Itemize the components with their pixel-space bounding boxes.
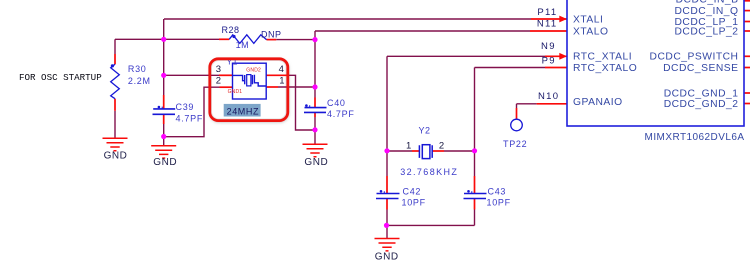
svg-text:TP22: TP22 [503, 139, 527, 149]
svg-text:3: 3 [216, 64, 221, 75]
svg-text:FOR OSC STARTUP: FOR OSC STARTUP [19, 72, 102, 83]
svg-text:32.768KHZ: 32.768KHZ [400, 167, 458, 177]
svg-text:N10: N10 [538, 91, 559, 102]
svg-text:P9: P9 [542, 55, 556, 66]
svg-text:C39: C39 [176, 102, 195, 112]
svg-text:R30: R30 [128, 64, 147, 74]
svg-text:XTALO: XTALO [573, 26, 609, 37]
svg-text:4: 4 [279, 64, 284, 75]
svg-text:Y2: Y2 [419, 126, 431, 136]
svg-text:C43: C43 [488, 187, 507, 197]
svg-text:N11: N11 [537, 18, 558, 29]
svg-text:GPANAIO: GPANAIO [573, 97, 623, 108]
svg-text:DCDC_PSWITCH: DCDC_PSWITCH [650, 52, 739, 63]
svg-text:2: 2 [439, 141, 444, 152]
svg-text:DCDC_LP_2: DCDC_LP_2 [674, 26, 738, 37]
svg-text:1: 1 [279, 75, 284, 86]
svg-text:DCDC_SENSE: DCDC_SENSE [663, 63, 738, 74]
svg-text:DCDC_IN_B: DCDC_IN_B [676, 0, 739, 6]
svg-text:MIMXRT1062DVL6A: MIMXRT1062DVL6A [645, 132, 745, 143]
svg-text:GND: GND [375, 251, 399, 262]
svg-text:GND: GND [104, 151, 128, 162]
svg-text:DCDC_GND_2: DCDC_GND_2 [664, 99, 739, 110]
svg-text:1M: 1M [236, 40, 250, 50]
svg-text:RTC_XTALO: RTC_XTALO [573, 63, 637, 74]
svg-text:10PF: 10PF [402, 197, 426, 207]
svg-text:2: 2 [216, 75, 221, 86]
svg-text:1: 1 [406, 141, 411, 152]
svg-text:C40: C40 [327, 98, 346, 108]
svg-text:P11: P11 [537, 7, 557, 18]
svg-text:RTC_XTALI: RTC_XTALI [573, 52, 632, 63]
svg-text:4.7PF: 4.7PF [176, 114, 204, 124]
svg-text:DCDC_IN_Q: DCDC_IN_Q [674, 6, 738, 17]
svg-text:GND: GND [304, 157, 328, 168]
svg-text:C42: C42 [403, 187, 422, 197]
svg-text:DNP: DNP [261, 29, 282, 39]
svg-text:N9: N9 [541, 41, 556, 52]
svg-text:GND1: GND1 [228, 89, 243, 95]
svg-text:2.2M: 2.2M [128, 76, 151, 86]
svg-text:10PF: 10PF [487, 197, 511, 207]
svg-text:DCDC_GND_1: DCDC_GND_1 [664, 88, 739, 99]
svg-text:R28: R28 [222, 25, 240, 35]
svg-text:4.7PF: 4.7PF [327, 109, 355, 119]
svg-text:24MHZ: 24MHZ [227, 106, 260, 116]
svg-text:GND2: GND2 [246, 68, 261, 74]
svg-text:XTALI: XTALI [573, 14, 603, 25]
svg-text:GND: GND [153, 157, 177, 168]
